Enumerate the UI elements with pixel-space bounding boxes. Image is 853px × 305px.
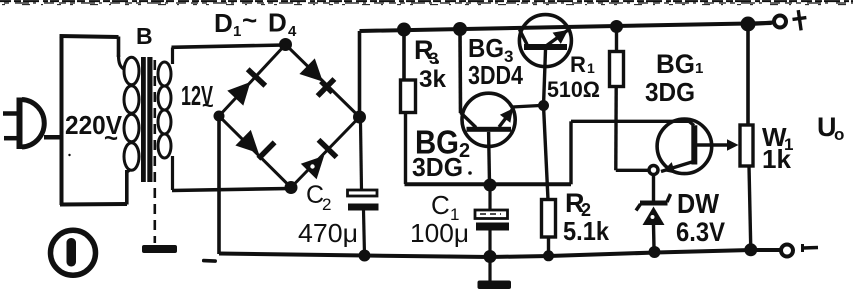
svg-text:510Ω: 510Ω [547,77,600,102]
svg-text:DW: DW [677,188,720,219]
svg-text:1: 1 [587,60,595,76]
svg-text:BG: BG [468,33,504,63]
svg-text:~: ~ [104,125,118,152]
svg-text:BG: BG [656,49,695,79]
svg-text:3k: 3k [419,66,447,93]
svg-text:4: 4 [288,23,297,40]
svg-text:R: R [570,52,586,77]
svg-text:D: D [214,8,233,38]
svg-text:3DD4: 3DD4 [468,60,523,90]
svg-text:3DG: 3DG [645,77,695,107]
svg-text:3DG: 3DG [412,152,463,182]
svg-text:~: ~ [242,5,257,35]
svg-text:6.3V: 6.3V [676,217,725,247]
svg-text:1k: 1k [762,144,791,174]
svg-text:~: ~ [202,95,214,117]
svg-text:470μ: 470μ [298,218,358,248]
svg-text:D: D [268,8,287,38]
svg-text:1: 1 [695,60,703,77]
svg-text:1: 1 [233,23,241,40]
svg-text:o: o [834,125,844,144]
svg-text:B: B [136,23,153,49]
svg-text:2: 2 [322,195,331,214]
svg-text:100μ: 100μ [410,218,469,248]
svg-text:C: C [431,190,450,220]
svg-text:5.1k: 5.1k [563,216,609,246]
